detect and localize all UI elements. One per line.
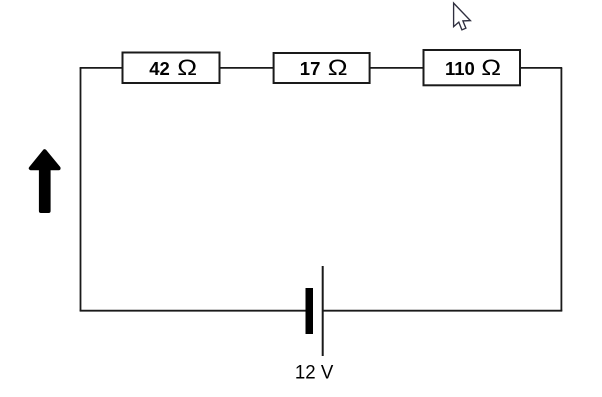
battery V1 negative plate (short thick) bbox=[306, 288, 314, 334]
wire top: node A to R1 bbox=[80, 67, 123, 69]
resistor R3 box bbox=[424, 50, 521, 85]
wire left vertical bbox=[80, 68, 82, 311]
svg-text:42: 42 bbox=[149, 58, 170, 79]
wire top: R3 to right corner bbox=[520, 67, 562, 69]
battery V1 positive plate (long thin) bbox=[322, 266, 324, 356]
svg-text:110: 110 bbox=[445, 58, 475, 79]
wire top: R2 to R3 bbox=[370, 67, 424, 69]
mouse cursor bbox=[454, 3, 471, 30]
svg-text:Ω: Ω bbox=[177, 56, 197, 81]
wire right vertical bbox=[560, 68, 562, 311]
svg-text:17: 17 bbox=[300, 58, 321, 79]
wire bottom: left corner to battery bbox=[80, 310, 306, 312]
svg-text:12 V: 12 V bbox=[295, 361, 333, 383]
wire top: R1 to R2 bbox=[220, 67, 274, 69]
resistor R1 box bbox=[123, 53, 220, 84]
svg-text:Ω: Ω bbox=[328, 56, 348, 81]
svg-text:Ω: Ω bbox=[481, 56, 501, 81]
wire bottom: battery to right corner bbox=[324, 310, 563, 312]
current direction arrow bbox=[31, 151, 59, 211]
resistor R2 box bbox=[274, 53, 370, 83]
